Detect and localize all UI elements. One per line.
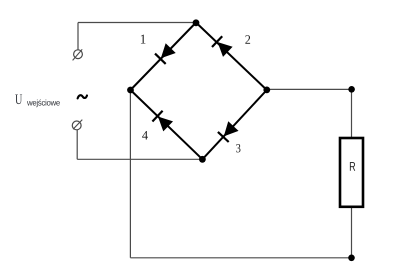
- resistor R value label: [350, 162, 355, 171]
- diode D4 cathode bar: [152, 111, 162, 122]
- terminal lower input: [72, 120, 82, 130]
- diode D1 triangle: [162, 44, 175, 57]
- wire right vertical upper (corner to resistor top): [351, 89, 353, 138]
- label 2: [245, 35, 250, 44]
- label 1: [141, 35, 146, 44]
- wire top horizontal from input to top node: [78, 22, 196, 24]
- wire right horizontal from right node: [267, 88, 352, 90]
- diode D4 triangle: [159, 117, 172, 130]
- diode D1 wire (top node to left node): [131, 23, 197, 91]
- label 3: [236, 144, 240, 152]
- wire upper-left vertical: [77, 23, 79, 50]
- resistor R body: [340, 138, 363, 207]
- node right (junction dot): [263, 87, 270, 94]
- terminal upper input: [73, 49, 83, 60]
- node top (junction dot): [193, 19, 200, 26]
- node left (junction dot): [127, 87, 134, 94]
- diode D2 triangle: [218, 43, 231, 56]
- AC source tilde symbol: [78, 95, 87, 98]
- diode D3 wire (right node to bottom node): [202, 90, 266, 159]
- diode D2 cathode bar: [212, 36, 222, 47]
- wire left-node vertical down: [129, 90, 131, 258]
- diode D1 cathode bar: [155, 54, 166, 64]
- wire bottom horizontal: [130, 257, 351, 259]
- wire right vertical lower (resistor bottom to corner): [351, 207, 353, 258]
- wire lower horizontal to bottom node: [77, 158, 202, 160]
- diode D4 wire (bottom node to left node): [131, 90, 203, 159]
- node top-right corner (junction dot): [348, 86, 355, 93]
- node bottom (junction dot): [199, 156, 206, 163]
- diode D3 cathode bar: [218, 132, 229, 142]
- diode D2 wire (right node to top node): [196, 23, 267, 91]
- wire lower-left vertical: [76, 130, 78, 159]
- label 4: [142, 131, 148, 140]
- diode D3 triangle: [225, 122, 238, 135]
- label U wejsciowe (input voltage): [15, 95, 22, 105]
- node bottom-right corner (junction dot): [348, 254, 355, 261]
